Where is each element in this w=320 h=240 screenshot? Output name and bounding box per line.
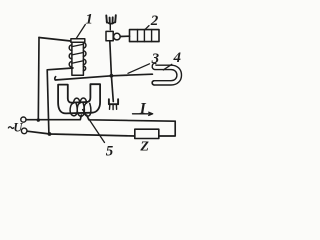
terminal T1 circle: [21, 117, 26, 122]
label 2 leader line: [145, 26, 149, 30]
terminal T2 circle: [21, 128, 27, 134]
lower brush symbol cup: [109, 99, 118, 104]
transformer 5 winding lower loops: [70, 103, 77, 116]
coil L1 body core: [72, 42, 84, 75]
resistor 2 body: [130, 30, 160, 42]
svg-text:Z: Z: [139, 139, 149, 154]
svg-text:4: 4: [173, 50, 182, 66]
bimetal hook 4 outline: [152, 63, 181, 85]
vertical rod from contact box down to junction: [110, 41, 112, 76]
roller contact circle: [114, 33, 121, 40]
brush symbol (top) stem: [109, 24, 111, 30]
label 3 leader line: [128, 64, 150, 74]
svg-text:2: 2: [150, 13, 159, 29]
coil L1 right winding bumps: [83, 43, 86, 71]
svg-text:5: 5: [106, 143, 114, 156]
wire from coil 1 lower terminal to left vertical drop: [47, 68, 73, 134]
transformer 5 winding upper bumps: [74, 98, 87, 103]
contact box on vertical rod: [106, 31, 113, 40]
svg-text:I: I: [139, 100, 147, 117]
svg-text:U: U: [13, 121, 23, 135]
wire left vertical riser: [37, 38, 40, 121]
wire circle to resistor 2: [120, 35, 129, 37]
brush symbol (top) bristles: [106, 15, 116, 23]
lower brush hatches: [110, 105, 117, 110]
bimetal hook 4 left cap of lower arm: [152, 81, 154, 85]
junction dot at left riser / T1 wire: [37, 118, 40, 121]
wire winding right end to load line: [87, 115, 175, 121]
load Z box: [135, 129, 159, 138]
coil L1 interior winding lines: [72, 44, 84, 63]
label ~U source: [8, 127, 13, 129]
coil L1 top cap: [71, 39, 85, 43]
svg-text:3: 3: [151, 51, 160, 67]
wire from Z box to T2: [27, 131, 135, 136]
transformer 5 core outline: [58, 84, 100, 113]
coil L1 left winding bumps: [69, 45, 72, 67]
load loop right side down: [159, 121, 175, 136]
brush symbol (top) cup arc: [107, 22, 116, 24]
wire from T1 to winding left end: [26, 115, 81, 120]
rod continues to lower brush: [111, 76, 113, 102]
resistor 2 dividers: [138, 30, 152, 42]
junction dot at left drop / T2 wire: [48, 132, 52, 136]
junction dot at rod / link 3: [110, 74, 114, 78]
label 1 leader line: [76, 25, 85, 39]
wire top-left horizontal from vertical riser to coil 1: [39, 38, 71, 42]
label 5 leader line: [83, 110, 105, 143]
svg-text:1: 1: [85, 12, 93, 28]
label 4 leader line: [163, 64, 172, 70]
current arrow I: [133, 113, 152, 115]
link wire 3 (from coil area to bimetal hook): [55, 74, 153, 80]
